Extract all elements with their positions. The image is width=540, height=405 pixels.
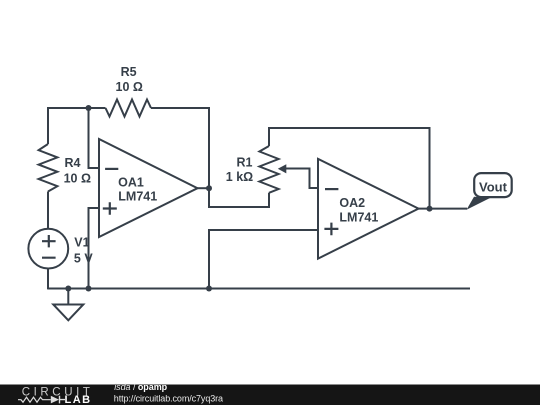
wire R5 right to feedback corner xyxy=(151,108,209,188)
resistor R5 xyxy=(106,100,152,117)
wire V1 to ground rail xyxy=(47,268,49,289)
wire OA2 output to Vout xyxy=(419,208,468,210)
voltage source V1 xyxy=(28,229,68,269)
svg-text:OA1: OA1 xyxy=(118,175,144,189)
svg-text:LAB: LAB xyxy=(65,394,92,405)
svg-text:OA2: OA2 xyxy=(339,196,365,210)
op-amp OA2 plus input symbol xyxy=(324,223,338,236)
wire R1 wiper to OA2 inverting input xyxy=(286,169,319,189)
op-amp OA1 minus input symbol xyxy=(105,168,118,170)
wire non-inverting input branch to ground rail xyxy=(89,208,100,289)
footer bar xyxy=(0,385,540,405)
resistor R4 xyxy=(39,144,58,192)
node OA2 output junction dot xyxy=(427,206,433,212)
op-amp U2 OA2 triangle xyxy=(318,159,419,259)
wire R1 top to OA2 feedback xyxy=(269,128,430,209)
svg-text:V1: V1 xyxy=(74,236,89,250)
wire OA1 output stub xyxy=(198,187,210,189)
wire top-left horizontal to R5 xyxy=(48,108,106,144)
op-amp OA1 plus input symbol xyxy=(103,202,117,215)
wire OA1 output down to R1 bottom xyxy=(209,188,269,207)
net flag Vout pennant xyxy=(467,197,491,210)
svg-text:10 Ω: 10 Ω xyxy=(116,80,143,94)
op-amp U1 OA1 triangle xyxy=(99,139,198,237)
potentiometer R1 zigzag xyxy=(259,146,278,193)
svg-text:Vout: Vout xyxy=(479,179,508,194)
svg-text:5 V: 5 V xyxy=(74,252,93,266)
node A junction dot xyxy=(86,105,92,111)
wire inverting input branch from node A xyxy=(89,108,100,168)
svg-text:isda / opamp: isda / opamp xyxy=(114,382,167,392)
logo diode symbol xyxy=(51,396,59,404)
logo resistor zigzag xyxy=(18,397,51,402)
potentiometer R1 wiper arrow xyxy=(278,164,287,173)
wire OA2 non-inverting input to ground rail xyxy=(209,230,318,289)
ground symbol xyxy=(53,289,83,321)
node ground junction dot 1 xyxy=(65,286,71,292)
node ground junction dot 2 xyxy=(86,286,92,292)
svg-text:http://circuitlab.com/c7yq3ra: http://circuitlab.com/c7yq3ra xyxy=(114,393,223,403)
node OA1 output junction dot xyxy=(206,185,212,191)
svg-text:1 kΩ: 1 kΩ xyxy=(226,170,253,184)
svg-text:R4: R4 xyxy=(65,156,81,170)
ground rail wire xyxy=(48,288,470,290)
op-amp OA2 minus input symbol xyxy=(325,188,338,190)
svg-text:R5: R5 xyxy=(121,65,137,79)
wire R4 to V1 xyxy=(47,192,49,229)
node ground junction dot 3 xyxy=(206,286,212,292)
svg-text:10 Ω: 10 Ω xyxy=(64,171,91,185)
net flag Vout box xyxy=(474,173,512,197)
svg-text:R1: R1 xyxy=(237,155,253,169)
svg-text:LM741: LM741 xyxy=(118,190,157,204)
svg-text:LM741: LM741 xyxy=(339,211,378,225)
